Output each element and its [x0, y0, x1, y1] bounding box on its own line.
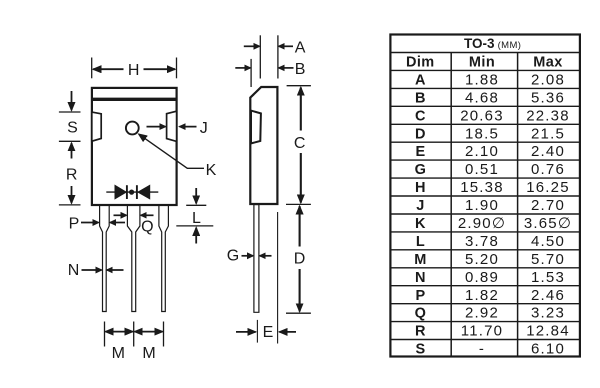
svg-text:18.5: 18.5 — [465, 125, 499, 142]
svg-text:22.38: 22.38 — [526, 107, 570, 124]
svg-text:21.5: 21.5 — [531, 125, 565, 142]
dimension Q right arrow — [141, 214, 154, 216]
svg-text:0.89: 0.89 — [465, 269, 499, 286]
table row line 12 — [391, 249, 580, 251]
dimension H right arrow — [144, 68, 176, 70]
table row line 8 — [391, 177, 580, 179]
svg-text:2.40: 2.40 — [531, 143, 565, 160]
svg-text:1.82: 1.82 — [465, 287, 499, 304]
dimension M left double arrow — [105, 331, 132, 333]
diode symbol lead line — [106, 191, 158, 193]
svg-text:2.90∅: 2.90∅ — [458, 215, 506, 232]
dimension S bottom tick — [59, 140, 81, 142]
svg-text:3.78: 3.78 — [465, 233, 499, 250]
mounting tab bar — [91, 98, 177, 101]
svg-text:6.10: 6.10 — [531, 341, 565, 358]
svg-text:K: K — [206, 162, 217, 179]
svg-text:2.10: 2.10 — [465, 143, 499, 160]
SIDE VIEW — [227, 35, 311, 343]
dimension L top tick — [186, 204, 206, 206]
svg-text:M: M — [112, 345, 125, 362]
svg-text:E: E — [415, 144, 425, 160]
svg-text:N: N — [68, 262, 80, 279]
svg-text:2.08: 2.08 — [531, 72, 565, 89]
svg-text:12.84: 12.84 — [526, 323, 570, 340]
svg-text:P: P — [69, 216, 80, 233]
svg-text:0.51: 0.51 — [465, 161, 499, 178]
dimension R bottom tick — [59, 204, 81, 206]
svg-text:Min: Min — [469, 55, 495, 71]
svg-text:S: S — [415, 342, 425, 358]
table row line 1 — [391, 52, 580, 54]
dimension A/B extension line right — [277, 35, 279, 78]
dimension H extension line left — [91, 58, 93, 79]
lead 2 (middle) front view — [127, 204, 139, 312]
dimension C down arrow — [300, 153, 302, 203]
dimension M extension line 1 — [104, 322, 106, 347]
table row line 11 — [391, 231, 580, 233]
dimension C up arrow — [300, 88, 302, 131]
svg-text:C: C — [294, 135, 306, 152]
svg-text:Dim: Dim — [406, 55, 435, 71]
dimension R bottom arrow — [71, 186, 73, 203]
table row line 10 — [391, 213, 580, 215]
svg-text:2.92: 2.92 — [465, 305, 499, 322]
svg-text:11.70: 11.70 — [461, 323, 503, 340]
svg-text:L: L — [192, 210, 201, 227]
right side notch — [167, 111, 177, 141]
dimension E right extension line — [277, 212, 279, 344]
TABLE — [390, 35, 580, 358]
svg-text:3.23: 3.23 — [531, 305, 565, 322]
left side notch — [92, 112, 101, 141]
table row line 7 — [391, 159, 580, 161]
dimension L bottom arrow — [195, 228, 197, 244]
dimension E left arrow — [236, 331, 256, 333]
svg-text:Max: Max — [533, 55, 562, 71]
table row line 13 — [391, 267, 580, 269]
table row line 2 — [391, 69, 580, 71]
dimension N right arrow — [107, 269, 124, 271]
svg-text:E: E — [263, 324, 274, 341]
svg-text:S: S — [67, 119, 78, 136]
dimension M extension line 2 — [133, 322, 135, 347]
dimension D down arrow — [299, 269, 301, 311]
svg-text:D: D — [415, 126, 425, 142]
dimension J inner arrow — [147, 126, 166, 128]
svg-text:5.20: 5.20 — [465, 251, 499, 268]
svg-text:-: - — [479, 341, 485, 358]
dimension E right arrow — [279, 331, 296, 333]
svg-text:N: N — [415, 270, 425, 286]
table row line 4 — [391, 105, 580, 107]
svg-text:H: H — [415, 180, 425, 196]
table column line 1 — [450, 53, 452, 357]
dimension G right arrow — [260, 255, 272, 257]
svg-text:L: L — [416, 234, 425, 250]
dimension B left arrow — [235, 67, 250, 69]
svg-text:5.70: 5.70 — [531, 251, 565, 268]
dimension C top tick — [287, 85, 311, 87]
svg-text:20.63: 20.63 — [460, 107, 504, 124]
dimension L bottom tick — [176, 225, 213, 227]
dimension N left arrow — [82, 269, 102, 271]
svg-text:H: H — [128, 62, 140, 79]
mounting hole K — [126, 122, 139, 135]
svg-text:16.25: 16.25 — [526, 179, 570, 196]
dimension B extension line left — [250, 59, 252, 87]
lead 1 (left) front view — [100, 204, 110, 312]
side ridge (notch profile) — [251, 111, 261, 144]
lead side view — [254, 205, 259, 313]
svg-text:1.53: 1.53 — [531, 269, 565, 286]
svg-text:4.50: 4.50 — [531, 233, 565, 250]
svg-text:G: G — [227, 248, 239, 265]
svg-text:P: P — [415, 288, 425, 304]
dimension A right arrow — [279, 45, 293, 47]
dimension C/D shared tick — [286, 203, 311, 205]
diode symbol right cathode bar — [136, 185, 138, 199]
dimension L top arrow — [195, 188, 197, 203]
svg-text:1.90: 1.90 — [465, 197, 499, 214]
svg-text:J: J — [200, 120, 208, 137]
table row line 9 — [391, 195, 580, 197]
dimension R top arrow — [71, 143, 73, 158]
table row line 14 — [391, 285, 580, 287]
svg-text:D: D — [294, 251, 306, 268]
dimension A left arrow — [244, 45, 260, 47]
svg-text:0.76: 0.76 — [531, 161, 565, 178]
dimension H left arrow — [93, 68, 123, 70]
package body front view — [92, 88, 177, 205]
svg-text:R: R — [415, 324, 426, 340]
diode symbol left cathode bar — [126, 185, 128, 199]
leader line K with arrow to hole — [139, 134, 204, 168]
table row line 6 — [391, 141, 580, 143]
svg-text:G: G — [415, 162, 426, 178]
svg-text:A: A — [295, 40, 306, 57]
table column line 2 — [517, 53, 519, 357]
svg-text:A: A — [415, 73, 426, 89]
table outer border — [390, 35, 580, 357]
dimension B right arrow — [279, 67, 294, 69]
table row line 15 — [391, 303, 580, 305]
diode symbol left anode triangle — [115, 185, 126, 198]
svg-text:K: K — [415, 216, 426, 232]
svg-text:15.38: 15.38 — [460, 179, 504, 196]
svg-text:4.68: 4.68 — [465, 89, 499, 106]
diode symbol center dot — [130, 190, 134, 194]
dimension A extension line left — [259, 35, 261, 78]
dimension M extension line 3 — [163, 322, 165, 347]
dimension Q left arrow — [114, 214, 127, 216]
dimension G left arrow — [242, 255, 254, 257]
dimension J outer arrow — [180, 126, 197, 128]
svg-text:1.88: 1.88 — [465, 72, 499, 89]
diode symbol right anode triangle — [138, 185, 150, 198]
table row line 3 — [391, 87, 580, 89]
dimension S top arrow — [71, 91, 73, 110]
dimension S top tick — [59, 111, 81, 113]
svg-text:2.70: 2.70 — [531, 197, 565, 214]
svg-text:M: M — [142, 345, 155, 362]
lead 3 (right) front view — [159, 204, 169, 312]
dimension E left extension line — [256, 320, 258, 343]
svg-text:B: B — [415, 90, 425, 106]
table row line 17 — [391, 339, 580, 341]
dimension D up arrow — [299, 206, 301, 246]
dimension P right arrow — [110, 222, 125, 224]
svg-text:Q: Q — [141, 219, 153, 236]
dimension H extension line right — [176, 58, 178, 79]
svg-text:Q: Q — [415, 306, 426, 322]
svg-text:3.65∅: 3.65∅ — [524, 215, 572, 232]
svg-text:J: J — [416, 198, 424, 214]
svg-text:5.36: 5.36 — [531, 89, 565, 106]
table row line 16 — [391, 321, 580, 323]
dimension M right double arrow — [135, 331, 163, 333]
svg-text:M: M — [414, 252, 426, 268]
FRONT VIEW — [59, 58, 217, 362]
dimension D bottom tick — [286, 312, 311, 314]
svg-text:R: R — [66, 166, 78, 183]
package body side view — [250, 87, 277, 204]
svg-text:C: C — [415, 108, 426, 124]
dimension P left arrow — [81, 222, 99, 224]
svg-text:2.46: 2.46 — [531, 287, 565, 304]
table row line 5 — [391, 123, 580, 125]
svg-text:B: B — [295, 61, 306, 78]
